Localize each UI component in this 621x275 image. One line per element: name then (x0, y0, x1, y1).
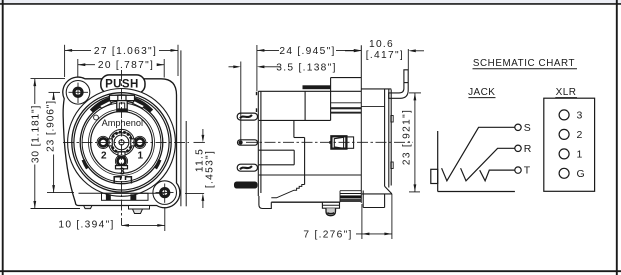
svg-text:Amphenol: Amphenol (102, 118, 143, 128)
svg-text:24 [.945"]: 24 [.945"] (279, 46, 335, 57)
svg-text:JACK: JACK (468, 87, 495, 98)
svg-text:10.6: 10.6 (369, 39, 394, 50)
svg-text:20 [.787"]: 20 [.787"] (98, 60, 154, 71)
svg-text:PUSH: PUSH (105, 79, 139, 91)
svg-text:[.417"]: [.417"] (366, 50, 404, 61)
svg-text:G: G (577, 168, 585, 180)
svg-text:3: 3 (119, 167, 125, 178)
svg-text:T: T (524, 165, 531, 177)
svg-text:SCHEMATIC CHART: SCHEMATIC CHART (473, 58, 575, 69)
svg-text:1: 1 (138, 150, 144, 161)
svg-text:30 [1.181"]: 30 [1.181"] (31, 105, 42, 163)
svg-text:23 [.906"]: 23 [.906"] (45, 100, 56, 152)
svg-text:2: 2 (101, 150, 107, 161)
svg-text:3.5 [.138"]: 3.5 [.138"] (276, 62, 336, 73)
svg-text:S: S (524, 122, 531, 134)
svg-text:7 [.276"]: 7 [.276"] (303, 229, 352, 240)
svg-text:1: 1 (577, 148, 583, 160)
svg-text:3: 3 (577, 109, 583, 121)
svg-text:23 [.921"]: 23 [.921"] (402, 109, 413, 165)
svg-text:[.453"]: [.453"] (204, 150, 215, 188)
svg-text:2: 2 (577, 129, 583, 141)
svg-text:27 [1.063"]: 27 [1.063"] (94, 46, 157, 57)
svg-text:XLR: XLR (556, 87, 577, 98)
svg-text:10 [.394"]: 10 [.394"] (58, 219, 114, 230)
svg-text:R: R (524, 143, 532, 155)
